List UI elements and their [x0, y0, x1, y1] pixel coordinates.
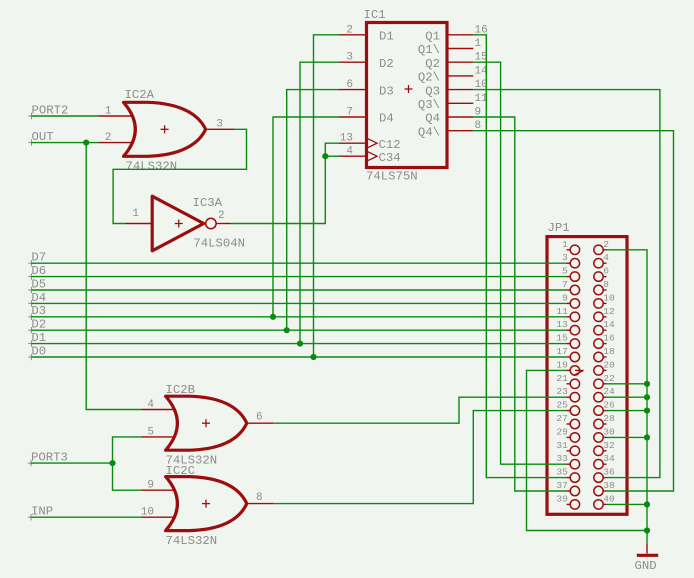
JP1 pad 30 [594, 426, 615, 442]
svg-text:C34: C34 [379, 151, 401, 165]
wire IC1 D4 to bus D3 with junction [270, 117, 339, 320]
JP1 pad 21 [556, 373, 579, 389]
net INP label and wire [28, 505, 141, 521]
svg-text:IC2B: IC2B [166, 383, 196, 397]
svg-text:9: 9 [562, 292, 568, 303]
IC3A pin 1 [126, 208, 153, 224]
JP1 pad 24 [594, 386, 615, 402]
svg-text:Q4: Q4 [425, 112, 440, 126]
JP1 pad 22 [594, 373, 615, 389]
svg-text:Q4\: Q4\ [418, 125, 440, 139]
svg-text:74LS75N: 74LS75N [366, 170, 418, 184]
IC1 pin 15 (Q2) [425, 52, 487, 71]
svg-text:Q3: Q3 [425, 84, 440, 98]
net D2 bus wire and label [28, 318, 566, 334]
JP1 pad 20 [594, 359, 615, 375]
wire JP1 pad26 to GND rail with junction [607, 408, 651, 414]
JP1 pad 27 [556, 413, 579, 429]
svg-text:30: 30 [603, 426, 615, 437]
svg-text:39: 39 [556, 493, 568, 504]
svg-text:27: 27 [556, 413, 567, 424]
net D3 bus wire and label [28, 304, 566, 320]
JP1 pad 37 [556, 480, 579, 496]
IC2A pin 1 [99, 106, 133, 118]
svg-text:6: 6 [256, 412, 263, 424]
svg-text:IC2A: IC2A [125, 88, 155, 102]
IC2B value label 74LS32N [166, 454, 218, 468]
svg-text:37: 37 [556, 480, 567, 491]
JP1 pad 8 [594, 279, 610, 295]
wire JP1 pad19 to GND rail [527, 370, 651, 533]
svg-text:33: 33 [556, 453, 568, 464]
JP1 pad 6 [594, 266, 610, 282]
IC1 pin 11 (Q3\) [418, 93, 488, 112]
IC2C value label 74LS32N [166, 534, 218, 548]
wire Q4N (IC1 pin8) to JP1 pad38 [473, 131, 673, 491]
JP1 name label [548, 221, 570, 235]
svg-text:IC3A: IC3A [193, 196, 223, 210]
net D1 bus wire and label [28, 331, 566, 347]
svg-text:5: 5 [562, 266, 568, 277]
svg-text:6: 6 [603, 266, 609, 277]
JP1 pad 12 [594, 306, 615, 322]
JP1 pad 9 [562, 292, 580, 308]
svg-text:22: 22 [603, 373, 615, 384]
wire IC1 D3 to bus D2 with junction [284, 90, 339, 334]
IC1 pin 3 (D2) [339, 52, 394, 71]
IC2C pin 10 [141, 507, 175, 519]
svg-text:31: 31 [556, 440, 568, 451]
or-gate IC2B 74LS32N body [166, 396, 247, 450]
JP1 pad 1 [562, 239, 580, 255]
IC1 pin 13 (C12) [339, 133, 401, 152]
svg-text:1: 1 [475, 38, 482, 50]
svg-text:21: 21 [556, 373, 568, 384]
JP1 pad 11 [556, 306, 579, 322]
svg-text:Q2: Q2 [425, 57, 440, 71]
JP1 pad 31 [556, 440, 579, 456]
svg-text:15: 15 [556, 333, 568, 344]
svg-text:19: 19 [556, 359, 568, 370]
IC2B symbol plus [202, 419, 210, 427]
IC3A value label 74LS04N [193, 237, 245, 251]
IC1 pin 8 (Q4\) [418, 120, 481, 139]
svg-text:13: 13 [556, 319, 568, 330]
svg-text:34: 34 [603, 453, 615, 464]
JP1 pad 34 [594, 453, 615, 469]
IC3A pin 2 (output) [216, 210, 232, 224]
svg-text:1: 1 [105, 106, 112, 118]
IC2A name label [125, 88, 155, 102]
JP1 pad 28 [594, 413, 615, 429]
IC2A value label 74LS32N [126, 160, 178, 174]
IC1 74LS75N body [367, 23, 448, 168]
svg-text:24: 24 [603, 386, 615, 397]
svg-text:Q2\: Q2\ [418, 71, 440, 85]
JP1 pad 13 [556, 319, 579, 335]
svg-text:10: 10 [603, 292, 615, 303]
JP1 pad 33 [556, 453, 579, 469]
JP1 pad 18 [594, 346, 615, 362]
net D5 bus wire and label [28, 277, 566, 293]
wire IC1 D1 to bus D0 with junction [310, 35, 339, 360]
svg-text:2: 2 [105, 132, 112, 144]
wire JP1 pad24 to GND rail with junction [607, 394, 651, 400]
svg-text:D4: D4 [379, 112, 394, 126]
svg-text:20: 20 [603, 359, 615, 370]
IC2B pin 5 [141, 426, 175, 438]
svg-text:35: 35 [556, 467, 568, 478]
svg-text:23: 23 [556, 386, 568, 397]
wire IC1 D2 to bus D1 with junction [297, 62, 339, 347]
wire IC2A out to IC3A in [113, 129, 246, 223]
net OUT vertical wire to IC2B pin4 [86, 143, 141, 410]
svg-text:13: 13 [340, 133, 353, 145]
svg-text:32: 32 [603, 440, 615, 451]
wire IC3A out to IC1 C12/C34 with junction [232, 143, 339, 223]
IC2A pin 2 [99, 132, 133, 144]
IC1 pin 2 (D1) [339, 24, 394, 43]
svg-text:3: 3 [216, 119, 223, 131]
svg-text:74LS04N: 74LS04N [193, 237, 245, 251]
svg-text:14: 14 [603, 319, 615, 330]
IC2A symbol plus [161, 125, 169, 133]
svg-text:6: 6 [346, 79, 353, 91]
svg-text:JP1: JP1 [548, 221, 570, 235]
IC1 pin 6 (D3) [339, 79, 394, 98]
IC2B pin 6 (output) [247, 412, 273, 424]
svg-text:5: 5 [147, 426, 154, 438]
IC3A output bubble [206, 218, 216, 228]
IC2B name label [166, 383, 196, 397]
svg-text:4: 4 [346, 146, 353, 158]
connector JP1 body [547, 237, 627, 515]
IC1 pin 1 (Q1\) [418, 38, 482, 57]
IC2B pin 4 [141, 399, 175, 411]
svg-text:25: 25 [556, 400, 568, 411]
JP1 pad 32 [594, 440, 615, 456]
op-gate IC2A 74LS32N body [124, 102, 206, 156]
svg-text:9: 9 [147, 480, 154, 492]
svg-text:2: 2 [218, 210, 225, 222]
IC1 pin 10 (Q3) [425, 79, 487, 98]
svg-text:IC1: IC1 [364, 8, 386, 22]
JP1 pad 25 [556, 400, 579, 416]
JP1 pad 36 [594, 467, 615, 483]
JP1 pad 3 [562, 252, 580, 268]
net PORT3 vertical wire IC2B pin5 to IC2C pin9 [113, 437, 141, 490]
svg-text:16: 16 [603, 333, 615, 344]
svg-text:OUT: OUT [32, 130, 54, 144]
IC2C symbol plus [202, 500, 210, 508]
IC1 pin 4 (C34) [339, 146, 401, 165]
svg-text:D2: D2 [379, 57, 394, 71]
svg-text:7: 7 [346, 107, 353, 119]
JP1 pad 23 [556, 386, 579, 402]
svg-text:2: 2 [346, 24, 353, 36]
JP1 pad 14 [594, 319, 615, 335]
JP1 pad 4 [594, 252, 610, 268]
svg-text:3: 3 [562, 252, 568, 263]
inverter IC3A body [152, 196, 204, 251]
JP1 pad 29 [556, 426, 579, 442]
wire Q1 (IC1 pin16) to JP1 pad35 [473, 35, 566, 478]
JP1 pad 10 [594, 292, 615, 308]
JP1 pad 38 [594, 480, 615, 496]
wire JP1 pad22 to GND rail with junction [607, 381, 651, 387]
svg-text:1: 1 [562, 239, 568, 250]
IC2C pin 8 (output) [247, 492, 273, 504]
wire JP1 pad2 to GND rail [607, 250, 648, 531]
IC1 value label 74LS75N [366, 170, 418, 184]
IC3A symbol plus [175, 220, 183, 228]
svg-text:10: 10 [141, 507, 154, 519]
JP1 pad 19 [556, 359, 579, 375]
JP1 pad 5 [562, 266, 580, 282]
wire JP1 pad40 to GND rail with junction [607, 501, 651, 507]
wire Q4 (IC1 pin9) to JP1 pad37 [473, 117, 566, 491]
net PORT3 label and wire [28, 451, 116, 467]
svg-text:GND: GND [635, 559, 657, 573]
net OUT label and wire [28, 130, 98, 146]
svg-text:17: 17 [556, 346, 567, 357]
svg-text:36: 36 [603, 467, 615, 478]
IC1 symbol plus [405, 85, 413, 93]
svg-text:40: 40 [603, 493, 615, 504]
wire JP1 pad30 to GND rail with junction [607, 434, 651, 440]
IC1 pin 9 (Q4) [425, 107, 481, 126]
IC2A pin 3 (output) [206, 119, 234, 131]
IC2C name label [166, 464, 196, 478]
svg-text:Q1: Q1 [425, 30, 440, 44]
svg-text:74LS32N: 74LS32N [166, 534, 218, 548]
wire IC2B out to JP1 pad23 [273, 397, 566, 423]
IC1 name label [364, 8, 386, 22]
svg-text:C12: C12 [379, 138, 401, 152]
svg-text:38: 38 [603, 480, 615, 491]
JP1 pad 26 [594, 400, 615, 416]
svg-text:D3: D3 [379, 84, 394, 98]
JP1 pad 19 arrow mark [574, 370, 584, 375]
net D0 bus wire and label [28, 344, 566, 360]
wire Q2 (IC1 pin15) to JP1 pad33 [473, 62, 566, 464]
svg-text:D1: D1 [379, 30, 394, 44]
svg-text:11: 11 [556, 306, 568, 317]
svg-text:Q3\: Q3\ [418, 98, 440, 112]
JP1 pad 17 [556, 346, 579, 362]
ground GND symbol [637, 531, 658, 556]
svg-text:7: 7 [562, 279, 568, 290]
net PORT2 label and wire [28, 103, 98, 119]
svg-text:2: 2 [603, 239, 609, 250]
svg-text:29: 29 [556, 426, 568, 437]
svg-text:8: 8 [603, 279, 609, 290]
svg-text:IC2C: IC2C [166, 464, 196, 478]
svg-text:12: 12 [603, 306, 615, 317]
JP1 pad 16 [594, 333, 615, 349]
svg-text:Q1\: Q1\ [418, 43, 440, 57]
svg-text:3: 3 [346, 52, 353, 64]
wire IC2C out to JP1 pad25 [273, 411, 566, 504]
IC3A name label [193, 196, 223, 210]
JP1 pad 35 [556, 467, 579, 483]
net D4 bus wire and label [28, 291, 566, 307]
JP1 pad 2 [594, 239, 610, 255]
IC1 pin 14 (Q2\) [418, 65, 488, 84]
svg-text:26: 26 [603, 400, 615, 411]
wire Q3 (IC1 pin10) to JP1 pad36 [473, 90, 660, 478]
svg-text:1: 1 [132, 208, 139, 220]
JP1 pad 40 [594, 493, 615, 509]
GND label [635, 559, 657, 573]
svg-text:74LS32N: 74LS32N [126, 160, 178, 174]
svg-text:4: 4 [603, 252, 609, 263]
or-gate IC2C 74LS32N body [166, 477, 247, 531]
svg-text:28: 28 [603, 413, 615, 424]
JP1 pad 15 [556, 333, 579, 349]
JP1 pad 39 [556, 493, 579, 509]
IC1 pin 7 (D4) [339, 107, 394, 126]
JP1 pad 7 [562, 279, 580, 295]
IC2C pin 9 [141, 480, 175, 492]
net D6 bus wire and label [28, 264, 566, 280]
svg-text:18: 18 [603, 346, 615, 357]
svg-text:4: 4 [147, 399, 154, 411]
net D7 bus wire and label [28, 251, 566, 267]
svg-text:8: 8 [256, 492, 263, 504]
IC1 pin 16 (Q1) [425, 24, 487, 43]
